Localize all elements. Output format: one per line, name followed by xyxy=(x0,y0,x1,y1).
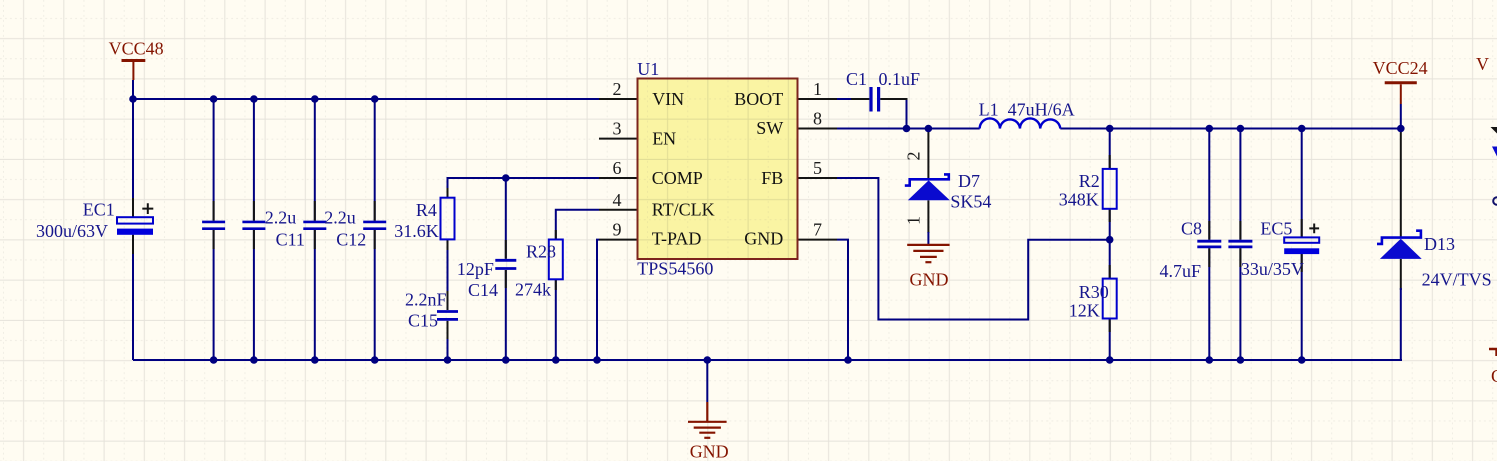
wire D7 top xyxy=(927,129,929,180)
wire SW rail right of L1 to VCC24 xyxy=(1060,128,1401,130)
svg-text:C14: C14 xyxy=(468,280,498,300)
capacitor C12 plates xyxy=(303,222,326,229)
svg-text:0.1uF: 0.1uF xyxy=(879,69,921,89)
svg-text:T-PAD: T-PAD xyxy=(652,229,702,249)
power VCC24 xyxy=(1385,81,1417,84)
svg-text:SK54: SK54 xyxy=(950,192,991,212)
svg-text:EC1: EC1 xyxy=(83,200,115,220)
svg-text:L1 47uH/6A: L1 47uH/6A xyxy=(979,100,1075,120)
wire BOOT to C1 xyxy=(837,98,852,100)
wire FB net xyxy=(837,178,1110,320)
svg-text:GND: GND xyxy=(690,442,729,461)
op-amp U1 TPS54560 body xyxy=(638,79,798,260)
SECTION: wires xyxy=(133,99,1402,402)
wire RT/CLK net xyxy=(556,210,599,240)
wire C1 to SW rail xyxy=(906,99,908,129)
svg-text:2: 2 xyxy=(904,152,924,161)
capacitor C at 374.7 plates xyxy=(363,222,386,229)
wire EC1 branch vertical xyxy=(132,99,134,360)
capacitor EC5 xyxy=(1284,237,1319,242)
svg-text:COMP: COMP xyxy=(652,168,703,188)
resistor R2 xyxy=(1103,169,1117,209)
pin 1 BOOT stub xyxy=(798,98,838,100)
svg-text:33u/35V: 33u/35V xyxy=(1241,259,1304,279)
svg-text:VCC48: VCC48 xyxy=(109,39,164,59)
wire cap branch x=213.6 xyxy=(213,99,215,360)
resistor R30 xyxy=(1103,279,1117,319)
svg-text:4: 4 xyxy=(613,190,622,210)
svg-text:1: 1 xyxy=(813,79,822,99)
wire R2 branch xyxy=(1109,129,1111,361)
svg-text:2: 2 xyxy=(613,79,622,99)
capacitor C1 plates xyxy=(871,87,879,112)
ground GND below D7 xyxy=(907,245,949,262)
svg-text:R28: R28 xyxy=(526,242,556,262)
power VCC48 xyxy=(122,59,146,62)
pin stubs C1 xyxy=(851,98,908,100)
pin 4 RT/CLK stub xyxy=(599,209,638,211)
svg-text:6: 6 xyxy=(613,158,622,178)
svg-text:D13: D13 xyxy=(1424,234,1455,254)
pin stubs C11 xyxy=(253,201,255,249)
svg-text:VCC24: VCC24 xyxy=(1373,58,1428,78)
wire cap branch x=1240.4 xyxy=(1239,129,1241,361)
svg-text:C11: C11 xyxy=(276,230,305,250)
svg-text:RT/CLK: RT/CLK xyxy=(652,200,715,220)
capacitor plates at 1240.4 xyxy=(1228,241,1252,247)
svg-text:2.2u: 2.2u xyxy=(265,208,297,228)
svg-text:G: G xyxy=(1491,366,1497,386)
pin stubs cap 1240.4 xyxy=(1239,221,1241,267)
svg-text:D7: D7 xyxy=(958,171,980,191)
wire R4 to C15 to bus xyxy=(447,239,449,360)
wire D13 branch xyxy=(1400,129,1402,238)
resistor R4 xyxy=(441,198,455,240)
pin stubs R2 xyxy=(1109,155,1111,222)
svg-text:GND: GND xyxy=(744,229,783,249)
svg-text:GND: GND xyxy=(910,270,949,290)
wire GND stem bottom xyxy=(706,360,708,402)
svg-text:BOOT: BOOT xyxy=(734,89,783,109)
pin stubs R28 xyxy=(555,230,557,290)
pin stubs C8 xyxy=(1208,221,1210,267)
SECTION: components xyxy=(117,61,1497,438)
svg-text:8: 8 xyxy=(813,109,822,129)
ground GND bottom center xyxy=(688,402,727,438)
svg-text:C1: C1 xyxy=(846,69,867,89)
capacitor C11 plates xyxy=(242,222,265,229)
pin 7 GND stub xyxy=(798,239,838,241)
pin 2 VIN stub xyxy=(599,98,638,100)
capacitor C14 plates xyxy=(495,260,516,268)
svg-text:5: 5 xyxy=(813,158,822,178)
pin 8 SW stub xyxy=(798,128,838,130)
wire C12 branch xyxy=(314,99,316,360)
svg-text:2.2nF: 2.2nF xyxy=(405,290,447,310)
capacitor C15 plates xyxy=(437,312,458,320)
wire C11 branch xyxy=(253,99,255,360)
wire C8 branch xyxy=(1208,129,1210,361)
svg-text:2.2u: 2.2u xyxy=(324,208,356,228)
svg-text:C12: C12 xyxy=(336,230,366,250)
pin stubs C14 xyxy=(505,240,507,288)
svg-text:C8: C8 xyxy=(1181,219,1202,239)
svg-text:TPS54560: TPS54560 xyxy=(637,259,713,279)
pin stubs R4 xyxy=(447,188,449,250)
wire SW rail left of L1 xyxy=(837,128,980,130)
pin stubs R30 xyxy=(1109,265,1111,332)
pin stubs EC5 xyxy=(1301,219,1303,272)
svg-text:VIN: VIN xyxy=(652,89,684,109)
svg-text:FB: FB xyxy=(761,168,783,188)
pin stubs cap 213.6 xyxy=(213,201,215,249)
svg-text:300u/63V: 300u/63V xyxy=(36,221,108,241)
svg-text:9: 9 xyxy=(613,220,622,240)
svg-text:V: V xyxy=(1476,54,1489,74)
svg-text:R4: R4 xyxy=(416,200,437,220)
svg-text:12K: 12K xyxy=(1069,301,1100,321)
wire C14 branch xyxy=(505,178,507,360)
wire bottom bus xyxy=(133,359,1402,361)
svg-text:R30: R30 xyxy=(1079,282,1109,302)
svg-text:348K: 348K xyxy=(1059,190,1099,210)
wire R28 to bus xyxy=(555,279,557,360)
pin 5 FB stub xyxy=(798,177,838,179)
svg-text:7: 7 xyxy=(813,220,822,240)
svg-text:EC5: EC5 xyxy=(1260,219,1292,239)
capacitor C8 plates xyxy=(1197,241,1221,247)
pin stubs EC1 xyxy=(132,198,134,254)
SECTION: black pin stubs xyxy=(133,99,1302,339)
wire EC5 branch xyxy=(1301,129,1303,361)
pin stubs cap 374.7 xyxy=(374,201,376,249)
wire D7 bottom to GND xyxy=(927,200,929,233)
svg-text:1: 1 xyxy=(904,216,924,225)
wire cap branch x=374.7 xyxy=(374,99,376,360)
svg-text:C15: C15 xyxy=(408,311,438,331)
svg-text:31.6K: 31.6K xyxy=(394,221,439,241)
capacitor EC1 xyxy=(117,217,153,223)
diode D13 24V/TVS xyxy=(1377,231,1422,259)
svg-text:U1: U1 xyxy=(637,59,659,79)
svg-text:3: 3 xyxy=(613,119,622,139)
wire COMP net xyxy=(448,178,600,198)
pin 9 T-PAD stub xyxy=(599,239,638,241)
wire T-PAD net xyxy=(597,240,599,360)
svg-text:R2: R2 xyxy=(1079,171,1100,191)
pin stubs C15 xyxy=(447,291,449,339)
capacitor C at 213.6 plates xyxy=(202,222,225,229)
pin 6 COMP stub xyxy=(599,177,638,179)
pin stubs C12 xyxy=(314,201,316,249)
wire VIN top bus xyxy=(133,98,599,100)
svg-text:274k: 274k xyxy=(515,280,551,300)
svg-text:SW: SW xyxy=(756,118,783,138)
inductor L1 xyxy=(980,118,1061,128)
svg-text:4.7uF: 4.7uF xyxy=(1160,261,1202,281)
svg-text:EN: EN xyxy=(652,128,676,148)
svg-text:12pF: 12pF xyxy=(457,259,494,279)
pin 3 EN stub xyxy=(599,138,638,140)
wire GND pin7 net xyxy=(837,240,848,360)
partial symbols at right edge xyxy=(1491,127,1497,134)
diode D7 SK54 xyxy=(905,174,950,200)
svg-text:24V/TVS: 24V/TVS xyxy=(1422,270,1492,290)
resistor R28 xyxy=(549,240,563,280)
